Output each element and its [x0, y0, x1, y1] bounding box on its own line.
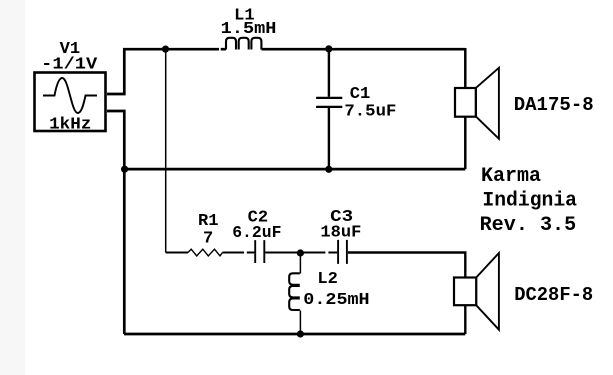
- wire: thin vertical feed to lowpass row: [165, 49, 167, 252]
- value label -1/1V: [41, 55, 98, 74]
- wire: C2 to node E: [265, 252, 300, 254]
- label DC28F-8: [514, 284, 593, 306]
- woofer speaker symbol (driver box): [455, 88, 476, 117]
- title text Rev. 3.5: [480, 214, 577, 237]
- wire: node E to C3: [301, 252, 338, 254]
- resistor R1 zigzag: [188, 249, 223, 256]
- value label 7.5uF: [344, 102, 396, 121]
- junction node C1 top: [325, 45, 332, 52]
- wire: L2 upper lead: [299, 253, 301, 274]
- woofer speaker symbol (cone): [476, 68, 499, 139]
- wire: row lead into R1: [166, 252, 188, 254]
- svg-text:1.5mH: 1.5mH: [221, 20, 277, 39]
- capacitor C1 plates: [316, 98, 342, 107]
- svg-text:Karma: Karma: [481, 165, 541, 188]
- junction node E (C2/C3/L2): [297, 249, 304, 256]
- value label 0.25mH: [303, 291, 369, 310]
- label R1: [198, 212, 219, 231]
- svg-text:DC28F-8: DC28F-8: [514, 284, 593, 306]
- voltage source V1 box: [35, 73, 106, 132]
- value label 6.2uF: [232, 224, 281, 243]
- capacitor C3 plates: [338, 240, 347, 264]
- svg-text:DA175-8: DA175-8: [514, 94, 594, 116]
- label C3: [330, 208, 353, 227]
- wire: middle return rail: [124, 168, 465, 171]
- label L1: [234, 6, 255, 25]
- label C1: [350, 85, 371, 104]
- wire: top rail right segment (L1 to woofer branch): [262, 48, 466, 51]
- svg-text:7.5uF: 7.5uF: [344, 102, 396, 121]
- label V1: [60, 40, 81, 59]
- svg-text:0.25mH: 0.25mH: [303, 291, 369, 310]
- title text Karma: [481, 165, 541, 188]
- wire: C1 upper lead: [328, 48, 330, 97]
- tweeter speaker symbol (cone): [476, 253, 499, 330]
- svg-text:7: 7: [203, 229, 213, 248]
- label L2: [317, 270, 338, 289]
- wire: C3 to tweeter branch and down: [348, 253, 465, 335]
- svg-text:L2: L2: [317, 270, 338, 289]
- svg-text:-1/1V: -1/1V: [41, 55, 98, 74]
- svg-text:C1: C1: [350, 85, 371, 104]
- svg-text:6.2uF: 6.2uF: [232, 224, 281, 243]
- svg-text:R1: R1: [198, 212, 219, 231]
- svg-text:1kHz: 1kHz: [49, 116, 91, 135]
- wire: left vertical from V1 minus terminal to bottom rail: [107, 111, 124, 334]
- wire: R1 to C2: [223, 252, 255, 254]
- wire: bottom rail: [124, 333, 465, 336]
- label DA175-8: [514, 94, 594, 116]
- wire: woofer branch right vertical: [464, 48, 467, 169]
- left gray margin strip: [0, 0, 25, 375]
- capacitor C2 plates: [255, 240, 264, 263]
- junction node C1 bottom: [325, 166, 332, 173]
- tweeter speaker symbol (driver box): [454, 278, 476, 306]
- value label 18uF: [320, 224, 361, 243]
- value label 1kHz: [49, 116, 91, 135]
- wire: C1 lower lead: [328, 108, 330, 169]
- wire: top rail left segment (node IN to L1): [107, 49, 226, 94]
- inductor L2 coil: [289, 273, 300, 310]
- junction node on top rail at thin feed: [162, 46, 169, 53]
- value label 1.5mH: [221, 20, 277, 39]
- junction node L2 bottom: [297, 330, 304, 337]
- title text Indignia: [482, 189, 577, 212]
- junction node middle rail left: [121, 166, 128, 173]
- wire: L2 lower lead: [299, 311, 301, 335]
- label C2: [248, 209, 269, 228]
- svg-text:Indignia: Indignia: [482, 189, 577, 212]
- svg-text:Rev. 3.5: Rev. 3.5: [480, 214, 577, 237]
- value label 7: [203, 229, 213, 248]
- sine wave symbol inside V1: [43, 78, 97, 113]
- inductor L1 coil: [226, 38, 261, 50]
- svg-text:18uF: 18uF: [320, 224, 361, 243]
